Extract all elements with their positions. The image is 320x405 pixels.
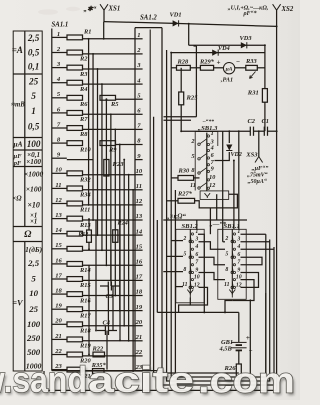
switch SB1.3 contacts with pin numbers — [190, 130, 215, 189]
svg-text:21: 21 — [54, 333, 62, 340]
svg-text:15: 15 — [55, 242, 62, 249]
svg-text:Ω: Ω — [24, 229, 32, 240]
svg-text:10: 10 — [209, 174, 215, 181]
svg-text:C1: C1 — [262, 118, 269, 125]
node: junction top bus XS2 — [276, 25, 278, 27]
svg-text:16: 16 — [136, 259, 143, 266]
switch SB1.2 contacts with pin numbers — [182, 229, 200, 298]
svg-text:22: 22 — [54, 348, 62, 355]
wire: drop to SB1.2 pin1 — [196, 220, 198, 230]
svg-text:R33: R33 — [245, 58, 257, 65]
switch SB1.2 outline — [176, 229, 204, 302]
wire: upper diode rail — [189, 44, 265, 46]
wire: bus below SB blocks to battery — [157, 311, 239, 313]
wire: bus v4 — [174, 190, 176, 373]
svg-text:18: 18 — [55, 288, 62, 295]
svg-text:11: 11 — [55, 182, 61, 189]
svg-text:18: 18 — [136, 289, 143, 296]
svg-text:+: + — [217, 59, 221, 67]
terminal XS1 — [100, 4, 108, 21]
wire: corner at x196 down — [195, 46, 197, 117]
wire: lower diode rail corner from SA1.2 side — [171, 53, 265, 118]
wire: SB1.1 left feed pin2 — [223, 241, 225, 243]
wire: R26 down to frame — [238, 377, 240, 385]
wire: R12 bottom lead — [88, 242, 90, 249]
wire: SB1.1 outputs right a — [241, 233, 266, 235]
svg-text:×10: ×10 — [27, 200, 40, 209]
svg-text:16: 16 — [55, 257, 62, 264]
wire: SB1.2 left feed pin2 — [171, 240, 183, 242]
svg-text:19: 19 — [136, 304, 143, 311]
svg-text:XS3: XS3 — [245, 152, 258, 159]
wire: junction to diode rails — [188, 24, 190, 46]
svg-text:XS1: XS1 — [108, 6, 121, 13]
svg-text:4: 4 — [56, 76, 61, 83]
resistor ladder row 16 box — [67, 262, 83, 267]
wire: R31 down to capacitor row — [264, 102, 266, 131]
svg-text:8: 8 — [225, 267, 228, 273]
svg-text:10: 10 — [55, 167, 62, 174]
battery GB1 — [231, 342, 247, 350]
wire: PA1 to R33 — [235, 67, 246, 69]
wire: C-row down to VD2 — [228, 131, 230, 143]
resistor ladder row 5 box — [67, 95, 83, 100]
svg-text:R28: R28 — [177, 58, 189, 65]
table text: range values — [11, 33, 43, 371]
svg-text:6: 6 — [195, 252, 198, 258]
wire: right bundle v265 upper — [265, 234, 267, 377]
wire: SB1.2 pin9 cross — [199, 273, 226, 280]
wire: C1 to XS2 line — [268, 130, 277, 132]
svg-text:25: 25 — [28, 77, 39, 87]
svg-text:−: − — [236, 58, 240, 66]
resistor ladder row 18 box — [67, 292, 83, 297]
wire: R33 to right bus — [257, 67, 265, 69]
svg-text:R22: R22 — [92, 346, 104, 353]
svg-text:×1000: ×1000 — [24, 170, 44, 179]
svg-text:100: 100 — [27, 319, 41, 329]
svg-text:μA: μA — [12, 139, 22, 148]
svg-text:8: 8 — [191, 167, 194, 174]
node: rail junction right — [264, 44, 266, 46]
svg-text:5: 5 — [31, 91, 36, 101]
wire: R25 down to capacitor row — [180, 105, 182, 131]
wire: SB1.1 block bottom drop — [225, 301, 232, 313]
svg-text:21: 21 — [135, 334, 143, 341]
svg-text:×1: ×1 — [30, 218, 37, 225]
node: capacitor mid tap — [258, 130, 260, 132]
wire: SB1.2 left feed pin8 — [163, 271, 183, 273]
svg-text:20: 20 — [135, 319, 143, 326]
svg-text:17: 17 — [55, 272, 62, 279]
wire: meter branch left — [171, 67, 176, 69]
svg-text:3: 3 — [194, 237, 198, 243]
wire: capacitor row — [181, 130, 250, 132]
svg-text:R4: R4 — [79, 86, 87, 93]
svg-text:VD1: VD1 — [170, 12, 182, 19]
wire: SB frame right drop — [249, 299, 251, 385]
svg-text:×100: ×100 — [26, 158, 41, 166]
switch SA1.1 wafer line — [51, 29, 53, 371]
switch SA1.2 frame left line — [134, 28, 136, 371]
capacitor C3 — [100, 282, 120, 291]
svg-text:5: 5 — [191, 153, 194, 160]
wire: bus above SB blocks — [163, 219, 247, 221]
svg-text:×Ω: ×Ω — [12, 194, 22, 202]
wire: SB1.1 outputs right e — [241, 273, 259, 288]
svg-text:×100: ×100 — [26, 185, 42, 194]
capacitor C1 — [264, 127, 267, 136]
terminal XS3 — [255, 157, 263, 163]
wire: top bus XS1 to VD1 to XS2 — [104, 22, 277, 27]
resistor ladder row 19 box — [67, 307, 83, 312]
wire: SB1.1 outputs right b — [241, 241, 270, 243]
table: measurement-range table frame — [13, 31, 42, 371]
svg-text:1: 1 — [211, 130, 214, 137]
svg-text:R1: R1 — [83, 28, 91, 35]
wire: bus x153 — [153, 117, 155, 373]
resistor ladder row 7 box — [67, 126, 83, 131]
svg-text:R5: R5 — [110, 101, 119, 108]
wire: row23 long line — [52, 370, 162, 372]
resistor ladder row 2 box — [67, 50, 83, 55]
wire: R30 right — [194, 177, 200, 179]
wire: bus v3 — [171, 118, 266, 377]
wire: bus v4 bottom — [154, 372, 239, 374]
stain marks top margin — [38, 7, 80, 15]
svg-text:acite: acite — [88, 359, 194, 400]
svg-text:1(дБ): 1(дБ) — [25, 245, 42, 254]
switch SB1.1 outline — [218, 229, 246, 299]
svg-text:3: 3 — [56, 61, 61, 68]
svg-text:500: 500 — [27, 347, 41, 357]
svg-text:1: 1 — [237, 229, 240, 235]
resistor R22 — [93, 352, 105, 357]
switch SA1.2 common bar — [149, 30, 151, 371]
wire: R28 to R29 — [190, 67, 200, 69]
resistor R23 — [104, 160, 109, 177]
watermark www.sandacite.com — [0, 359, 297, 403]
resistor R30 — [178, 176, 194, 181]
capacitor C2 — [250, 127, 253, 136]
wire: bus v2 — [167, 50, 270, 381]
svg-text:R27*: R27* — [177, 190, 193, 197]
resistor ladder row 20 box — [67, 322, 83, 327]
wire: SB1.2 left feed pin5 — [167, 255, 183, 257]
node: junction C-row drop — [238, 130, 240, 132]
node: junction VD2 branch — [233, 160, 235, 162]
wire: feed line lower — [164, 119, 192, 121]
wire: bottom frame left drop — [43, 371, 45, 390]
svg-text:SA1.2: SA1.2 — [140, 15, 157, 22]
diode VD2 — [226, 145, 232, 151]
wire: SB1.2 left feed pin11 — [175, 286, 183, 288]
svg-text:VD3: VD3 — [240, 35, 253, 42]
svg-text:5: 5 — [31, 273, 36, 283]
svg-text:6: 6 — [237, 252, 240, 258]
svg-text:μA: μA — [225, 66, 233, 72]
svg-text:ρF“*: ρF“* — [242, 10, 257, 17]
wires: ladder outputs to SA1.2 contacts — [67, 39, 135, 371]
wire: right bus down to R31 — [264, 45, 266, 88]
switch SB1.3 outline — [195, 132, 218, 191]
svg-text:9: 9 — [237, 267, 240, 273]
resistor R5 — [100, 95, 116, 100]
wire: middle bus x210 — [209, 208, 211, 234]
diode VD4 — [212, 49, 218, 55]
resistor R35* — [93, 369, 105, 374]
svg-text:0,1: 0,1 — [28, 62, 39, 72]
svg-text:0,5: 0,5 — [28, 121, 40, 131]
svg-text:12: 12 — [136, 198, 143, 205]
resistor ladder row 8 box — [67, 141, 83, 146]
svg-text:‚PA1: ‚PA1 — [221, 76, 234, 83]
resistor ladder row 10 box — [67, 171, 83, 176]
trimmer arrow of R33 — [250, 72, 256, 79]
svg-text:1: 1 — [137, 32, 140, 39]
svg-text:1: 1 — [57, 31, 60, 38]
wire: SB1.2 pin12 out — [190, 287, 207, 305]
svg-text:≈mВ: ≈mВ — [11, 102, 25, 109]
svg-text:14: 14 — [55, 227, 62, 234]
svg-text:2: 2 — [56, 46, 61, 53]
switch SA1.2 frame top line — [135, 27, 162, 29]
svg-text:R32: R32 — [79, 177, 91, 184]
switch SA1.2 contacts 1-23 with pin numbers — [135, 32, 143, 371]
svg-text:„75mV“: „75mV“ — [247, 173, 268, 179]
resistor R28 — [177, 65, 191, 70]
wire: SB1.1 outputs right c — [241, 248, 275, 250]
wire: feed to R30 — [171, 177, 178, 179]
svg-text:R29*: R29* — [199, 58, 215, 65]
wire: feed line upper — [164, 116, 197, 118]
svg-text:9: 9 — [211, 165, 214, 172]
resistor R31 — [262, 89, 267, 103]
resistor R27* — [178, 198, 195, 203]
terminal XS2 — [273, 4, 281, 131]
svg-text:XS2: XS2 — [281, 6, 294, 13]
svg-text:12: 12 — [55, 197, 62, 204]
svg-text:20: 20 — [54, 318, 62, 325]
node: junction on battery bus — [203, 311, 205, 313]
svg-text:250: 250 — [26, 333, 41, 343]
svg-text:2: 2 — [224, 236, 228, 242]
svg-text:+: + — [246, 334, 250, 342]
wire: corner top to rail — [194, 45, 197, 47]
resistor ladder row 3 box — [67, 65, 83, 70]
diode VD3 — [241, 42, 247, 48]
meter PA1 — [223, 62, 234, 73]
resistor ladder row 6 box — [67, 111, 83, 116]
wire: R29 to PA1 — [214, 67, 224, 69]
svg-text:22: 22 — [135, 349, 143, 356]
wire: SB1.2 pin6 cross — [199, 257, 226, 265]
svg-text:R10: R10 — [79, 146, 91, 153]
resistor R12 (vertical) — [87, 230, 92, 242]
node: junction C-row at VD2 — [228, 130, 230, 132]
svg-text:3: 3 — [236, 237, 240, 243]
node: R12 top junction — [88, 218, 90, 220]
switch SB1.1 contacts with pin numbers — [224, 229, 242, 298]
svg-text:R7: R7 — [79, 116, 88, 123]
svg-text:14: 14 — [136, 228, 143, 235]
wire: middle bus x222 — [222, 131, 224, 242]
svg-text:R11: R11 — [79, 207, 90, 214]
svg-text:4,5В: 4,5В — [219, 346, 233, 353]
svg-text:=V: =V — [12, 299, 24, 308]
svg-text:19: 19 — [55, 303, 62, 310]
svg-text:VD4: VD4 — [218, 45, 230, 52]
wire: SB1.2 block bottom drop — [179, 305, 191, 312]
svg-text:100: 100 — [27, 139, 41, 149]
svg-text:13: 13 — [136, 213, 143, 220]
svg-text:R2: R2 — [79, 56, 88, 63]
resistor ladder row 14 box — [67, 231, 83, 236]
svg-text:12: 12 — [209, 182, 215, 189]
node: junction XS2 at C1 — [276, 130, 278, 132]
wire: R28 down to R25 — [180, 68, 182, 92]
svg-text:11: 11 — [224, 282, 230, 288]
resistor ladder row 4 box — [67, 80, 83, 85]
svg-text:www.sand: www.sand — [0, 359, 87, 400]
resistor R29* — [200, 65, 213, 70]
svg-text:=A: =A — [12, 45, 23, 55]
capacitor C4 — [97, 326, 117, 335]
wire: bus v1 — [162, 28, 274, 385]
resistor ladder row 13 box — [67, 216, 83, 221]
wires: vertical bus mesh between ladder and SA1.2 — [88, 22, 134, 372]
svg-text:25: 25 — [28, 304, 38, 314]
wire: battery to R26 — [238, 350, 240, 364]
resistor R26 — [236, 364, 241, 377]
svg-text:VD2: VD2 — [231, 152, 242, 158]
node: junction lower rail left — [170, 52, 172, 54]
node: junction top bus to meter branch — [188, 23, 190, 25]
switch SB1.3 common bar — [206, 133, 208, 191]
svg-text:R8: R8 — [79, 131, 88, 138]
wire: VD2 branch down to SB1.1 — [233, 161, 235, 230]
svg-text:2,5: 2,5 — [27, 258, 40, 268]
wire: left bundle x157 — [156, 220, 158, 312]
resistor ladder row 22 box — [67, 352, 83, 357]
svg-text:2,5: 2,5 — [27, 33, 40, 43]
node: junction battery bus right — [224, 311, 226, 313]
svg-text:„μF“”: „μF“” — [252, 165, 269, 172]
svg-text:R31: R31 — [247, 89, 259, 96]
svg-text:„50μA“: „50μA“ — [248, 179, 267, 185]
switch SB1.3 actuator box — [200, 191, 229, 200]
wire: middle bus x216 — [216, 194, 218, 220]
wire: bottom frame — [44, 389, 277, 391]
svg-text:3: 3 — [136, 62, 141, 69]
svg-text:5: 5 — [225, 252, 228, 258]
svg-text:8: 8 — [183, 267, 186, 273]
svg-text:4: 4 — [136, 77, 141, 84]
svg-text:5: 5 — [183, 252, 186, 258]
svg-text:.com: .com — [198, 360, 295, 400]
wire: battery top lead — [238, 312, 240, 342]
wire: tap down to XS3 — [258, 131, 260, 156]
resistor ladder row 17 box — [67, 277, 83, 282]
wire: SB1.2 outputs right — [198, 234, 204, 312]
svg-text:SA1.1: SA1.1 — [52, 22, 69, 29]
node: junction C-row at R25 — [180, 130, 182, 132]
resistor ladder row 15 box — [67, 246, 83, 251]
svg-text:11: 11 — [136, 183, 142, 190]
svg-text:10: 10 — [194, 275, 200, 281]
diode VD1 — [173, 20, 179, 26]
svg-text:4: 4 — [194, 244, 198, 250]
wire: between C2 and C1 — [254, 130, 265, 132]
svg-text:R6: R6 — [79, 101, 88, 108]
wire: R12 top lead — [88, 219, 90, 230]
svg-text:R23: R23 — [112, 161, 125, 168]
svg-text:10: 10 — [136, 168, 143, 175]
svg-text:4: 4 — [236, 244, 240, 250]
wire: XS2 line lower part — [276, 131, 278, 390]
svg-text:2: 2 — [136, 47, 141, 54]
wire: C-row down to SB1.1 pin1 — [238, 131, 240, 220]
wire: routing box right of R27 — [195, 194, 238, 208]
wire: R27 left — [167, 200, 178, 202]
svg-text:9: 9 — [195, 267, 198, 273]
switch SA1.1 contacts 1-23 with pin numbers — [52, 31, 67, 370]
svg-text:R3: R3 — [79, 71, 88, 78]
svg-text:17: 17 — [136, 274, 143, 281]
svg-text:0,5: 0,5 — [28, 47, 40, 57]
wire: SB1.2 pin3 to SB1.1 — [199, 242, 226, 249]
wire: SB1.1 pin10 out — [232, 280, 254, 301]
svg-text:2: 2 — [190, 138, 194, 145]
resistor R9 — [100, 141, 116, 146]
resistor ladder row 1 box — [67, 35, 83, 40]
wire: drop to SB1.1 pin1 — [238, 220, 240, 230]
svg-text:1: 1 — [31, 106, 36, 116]
svg-text:15: 15 — [136, 243, 143, 250]
svg-text:10: 10 — [29, 288, 38, 298]
svg-text:„✱“: „✱“ — [84, 5, 97, 13]
node: R12 bottom junction — [88, 248, 90, 250]
svg-text:pF: pF — [13, 160, 22, 167]
svg-text:13: 13 — [55, 212, 62, 219]
svg-text:„SB1.3: „SB1.3 — [198, 125, 218, 132]
wire: SB1.1 outputs right d — [241, 257, 263, 265]
switch SB1.3 actuator arrow — [205, 193, 211, 198]
resistor R25 — [179, 92, 184, 105]
resistor R33 — [246, 65, 257, 70]
resistor R24 — [113, 230, 118, 243]
svg-text:C2: C2 — [248, 118, 256, 125]
resistor ladder row 12 box — [67, 201, 83, 206]
resistor ladder row 21 box — [67, 337, 83, 342]
svg-text:R30: R30 — [178, 167, 190, 174]
wire: VD2 down — [215, 152, 230, 161]
resistor ladder row 11 box — [67, 186, 83, 191]
resistor ladder row 23 box — [67, 367, 83, 372]
svg-text:11: 11 — [190, 182, 196, 189]
svg-text:1: 1 — [195, 229, 198, 235]
svg-text:4: 4 — [210, 145, 214, 152]
